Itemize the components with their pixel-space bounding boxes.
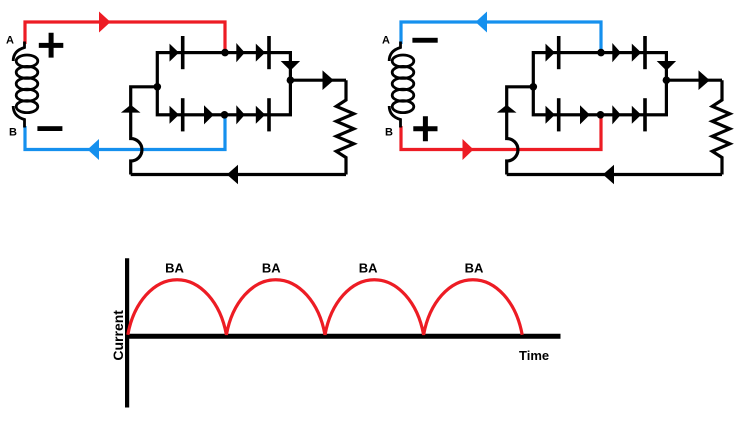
diode D1 (top-left) [170,44,179,62]
current arrow (red, pointing right) [99,12,111,33]
current arrow (bottom edge, left of node) [204,105,214,124]
diode D7 (bottom-left) [546,106,555,124]
polarity + [413,116,437,141]
wire: bottom return [507,173,722,176]
transformer coil [13,42,38,128]
load resistor [336,80,354,174]
wire: bottom return [131,173,346,176]
current arrow (red, pointing right) [463,139,474,160]
current arrow (bottom edge, right of node) [612,105,621,124]
node: bridge output junction [663,76,671,84]
svg-text:A: A [6,35,14,47]
diode D5 (top-left) [546,44,555,62]
svg-text:Current: Current [110,310,126,361]
wire: red from terminal B to bridge bottom node [401,115,601,150]
current arrow (bottom edge, left of node) [580,105,590,124]
svg-text:B: B [9,127,17,139]
current arrow (left vertical, up) [497,105,517,113]
svg-text:BA: BA [165,261,184,276]
polarity - [37,126,62,131]
wire: red from terminal A to bridge top node [25,22,225,53]
diode D2 (top-right) [256,44,265,62]
node: bridge left junction [530,83,538,91]
diode D4 (bottom-right) [256,106,265,124]
current arrow (left vertical, up) [121,105,141,113]
x-axis (Time) [125,334,561,339]
node: bridge top junction [221,49,229,57]
svg-text:Time: Time [519,348,549,363]
node: bridge top junction [597,49,605,57]
diode D6 (top-right) [632,44,641,62]
bridge rectifier outline [157,53,290,115]
wire: blue from terminal A to bridge top node [401,22,601,53]
polarity + [39,33,64,58]
current arrow (top edge, right) [236,43,245,62]
polarity - [412,38,437,43]
node: bridge left junction [154,83,162,91]
svg-text:A: A [382,35,390,47]
diode D3 (bottom-left) [170,106,179,124]
load resistor [712,80,730,174]
current arrow (bottom edge, right of node) [236,105,245,124]
current arrow (right edge, down) [281,61,300,71]
wire: left vertical with crossover hop [507,87,534,175]
svg-text:BA: BA [359,261,378,276]
diode D8 (bottom-right) [632,106,641,124]
wire: blue from terminal B to bridge bottom node [25,115,225,150]
wire: output to load [666,79,722,82]
wire: output to load [290,79,346,82]
current arrow (output, right) [323,70,334,90]
current arrow (return, left) [603,165,614,185]
current arrow (output, right) [699,70,710,90]
svg-text:BA: BA [262,261,281,276]
transformer coil [389,42,414,128]
node: bridge bottom junction [597,111,605,119]
svg-text:B: B [385,127,393,139]
wire: left vertical with crossover hop [131,87,158,175]
y-axis (Current) [125,258,129,407]
current arrow (top edge, right) [612,43,621,62]
svg-text:BA: BA [465,261,484,276]
node: bridge bottom junction [221,111,229,119]
current arrow (blue, pointing left) [88,139,100,160]
node: bridge output junction [287,76,295,84]
current arrow (return, left) [227,165,238,185]
current arrow (right edge, down) [657,61,676,71]
current arrow (blue, pointing left) [476,12,488,33]
rectified current waveform (red humps) [128,280,522,335]
bridge rectifier outline [533,53,666,115]
